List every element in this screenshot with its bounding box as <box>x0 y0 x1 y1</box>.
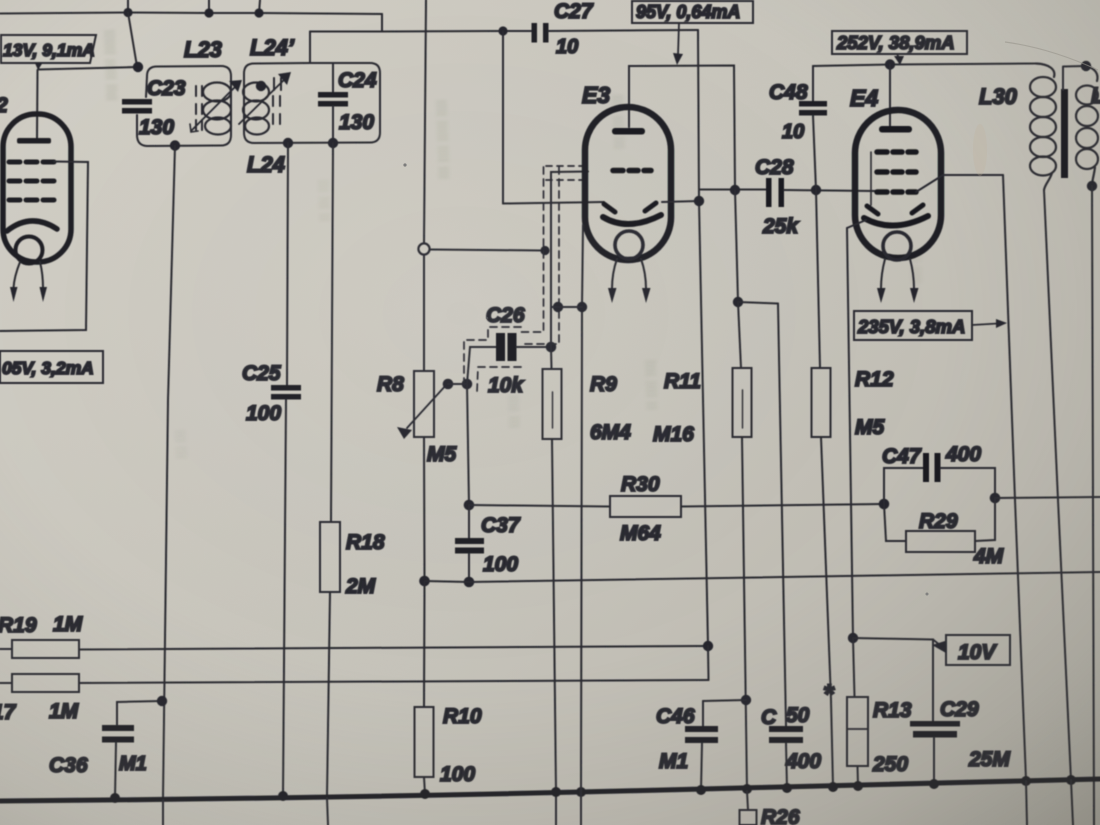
E4 inner grid rail <box>870 152 872 205</box>
capacitor C46 <box>685 726 718 743</box>
wire: second rail to C27 <box>310 30 531 33</box>
wire: long mid rail to right edge <box>469 572 1100 582</box>
wire: C26 right lead to node <box>517 346 552 348</box>
wire: R11 node to body <box>738 302 741 368</box>
E3 leg arrow right <box>641 259 646 289</box>
wire: R11 to bus <box>742 437 747 791</box>
wire: jog to C50 column <box>738 302 778 304</box>
wire: E4 anode feed <box>889 65 891 127</box>
resistor R18 <box>320 522 340 592</box>
junction dot return <box>703 641 713 651</box>
L24' core dashes <box>273 96 280 124</box>
wire: R29 branch right <box>975 498 995 541</box>
junction dot C47/R29 right <box>990 493 1001 504</box>
E2 cathode arc <box>7 221 57 231</box>
wire: right column down to bus <box>1003 175 1026 780</box>
E3 cathode tick left <box>604 204 615 212</box>
wire: stub up at x209 <box>208 0 210 13</box>
junction dot C46 branch <box>741 695 751 705</box>
resistor R13 with tap line <box>847 697 868 766</box>
wire: stub up at x128 <box>127 0 129 13</box>
junction dot anode node <box>694 196 704 206</box>
wire: L30 bottom to bus <box>1044 190 1071 780</box>
E4 grid dash rows <box>877 152 916 192</box>
wire: below-bus stub x327 <box>327 798 328 825</box>
wire: long drop x698 from rail to AVC node (E3 anode column) <box>698 30 708 646</box>
transformer core bar <box>1061 89 1068 178</box>
label box 13V <box>1 35 96 63</box>
tube E2 (cut at left edge) <box>3 114 71 262</box>
wire: R10 to bus <box>424 777 425 794</box>
E2 leg arrow left <box>14 262 21 288</box>
wire: rail from C27 to anode drop <box>549 30 699 31</box>
junction dot C26/R9 node <box>546 342 557 353</box>
E2 anode bar <box>17 138 51 144</box>
wire: C47 to right vertex <box>941 468 996 498</box>
bus junction dots <box>110 775 1076 803</box>
wire: below terminal down to R8 <box>423 255 425 371</box>
wire: R12 to bus <box>821 437 833 786</box>
wire: R8 bottom to lower node <box>423 437 426 581</box>
resistor R19 <box>12 640 79 658</box>
resistor R9 <box>543 369 562 439</box>
wire: 95V rail over E3 <box>629 66 735 191</box>
arrow from 95V box <box>678 23 679 55</box>
wire: R13 node to body <box>853 638 855 697</box>
capacitor C26 <box>496 333 517 361</box>
junction dot R11 node <box>733 297 743 307</box>
wire: upper return line y646 <box>79 646 708 650</box>
capacitor C37 <box>455 538 484 554</box>
arrow from 13V box to wire <box>39 63 41 68</box>
E3 cathode tick right <box>645 203 656 211</box>
wire: R11 column <box>735 190 738 302</box>
E2 heater circle <box>16 237 43 264</box>
wire: rail to right edge <box>995 497 1100 498</box>
E4 anode bar <box>879 126 912 133</box>
E4 leg arrow right <box>910 259 914 289</box>
inductor L23 (3 loops) <box>203 83 231 135</box>
junction dot secondary top <box>1081 61 1091 71</box>
label box 05V <box>0 351 103 383</box>
wire: node jog to C29 and 10V <box>853 638 933 722</box>
bleed-through ghost print <box>100 30 924 460</box>
L24' tuning arrow <box>239 77 287 124</box>
wire: C37 bottom lead <box>468 554 470 583</box>
252V measurement box <box>832 31 967 54</box>
wire: node down to R9 <box>550 347 553 369</box>
wire: R17 left stub <box>0 682 12 684</box>
junction dot C28 right <box>811 185 821 195</box>
shield dashed line right <box>521 167 559 344</box>
paper crease top-right <box>1005 42 1098 70</box>
junction dot <box>204 8 213 17</box>
shield dashes toward tube <box>546 166 584 180</box>
resistor R30 <box>610 496 681 517</box>
wire: secondary top link <box>1063 66 1086 90</box>
wire: C37 top lead <box>468 505 470 538</box>
wire: secondary bottom down right edge <box>1092 186 1094 825</box>
wire: E3 anode to node <box>662 201 699 202</box>
junction dot L23 box top <box>133 62 143 72</box>
inductor secondary (4 loops) <box>1086 66 1098 81</box>
junction dot C37 bottom <box>464 577 475 588</box>
E2 grid dash row 1 <box>9 160 54 165</box>
E4 heater circle <box>883 232 911 260</box>
junction dot C47/R29 left <box>879 499 890 510</box>
junction dot on shielded wire <box>540 246 549 255</box>
wire: long vertical from top edge to grid terminal <box>424 0 426 243</box>
wire: jumper to shielded wire <box>551 306 558 308</box>
wire: R19 left stub <box>0 648 12 650</box>
E2 leg arrow right <box>40 262 43 288</box>
10V box <box>946 635 1010 665</box>
95V measurement box <box>632 1 753 23</box>
E3 cathode arc <box>603 215 661 224</box>
wire: rail corner down to second rail <box>381 14 383 32</box>
resistor R12 <box>812 368 831 437</box>
wire: R18 to bus <box>327 592 330 796</box>
resistor R26 (cut at bottom) <box>740 810 757 825</box>
junction dot box1 bottom <box>170 140 180 150</box>
tube E3 envelope <box>585 107 671 260</box>
capacitor C47 <box>923 453 941 482</box>
wire: lean up from rail to box dot <box>128 13 137 67</box>
wire: into E3 left at y204 <box>503 202 604 204</box>
L23 core dashes <box>196 86 202 130</box>
box around C23/L23 (gap in left edge for C23) <box>137 66 231 146</box>
wire: C46 top lead <box>702 701 704 726</box>
wire: C48 drop <box>812 66 814 101</box>
wire: mid rail right of R30 <box>681 504 884 507</box>
wire: from corner to L23 box top <box>38 67 138 70</box>
wire: R12 column from C28 right <box>816 190 820 368</box>
wire: anode node to C28 <box>699 189 766 191</box>
junction dot C26 left branch <box>462 379 473 390</box>
open terminal circle <box>418 243 429 254</box>
wire: top rail <box>0 13 382 15</box>
wire: R13 to bus <box>857 766 860 786</box>
wire: drop from box2 to C25 <box>287 143 288 385</box>
E4 leg arrow left <box>881 259 885 289</box>
inductor L30 (5 loops) <box>1036 64 1054 78</box>
wire: C46 bottom to bus <box>701 743 702 791</box>
shield dashed line left <box>521 167 544 332</box>
capacitor C50 <box>769 726 803 743</box>
wire: below-bus stub R26 <box>747 791 748 810</box>
wire: E3 cathode drop to bus <box>581 225 583 825</box>
junction dot cathode jumper left <box>553 302 563 312</box>
E2 grid dash row 2 <box>9 179 54 184</box>
capacitor C48 <box>799 101 827 116</box>
wire: E4 screen takeoff to right column <box>916 175 1003 192</box>
wire: lower return line y683 <box>79 680 709 683</box>
resistor R10 <box>415 707 434 777</box>
wire: C26 left lead <box>467 347 496 384</box>
wire: L23 bottom long drop to bus <box>163 146 175 799</box>
junction dot R13 top node <box>848 633 858 643</box>
capacitor C27 <box>532 23 549 43</box>
tube E4 envelope <box>855 110 941 258</box>
junction dot box2 bottom left <box>283 138 293 148</box>
wire: below-bus stub x163 <box>162 800 164 825</box>
wire: link R8 node to C37 node <box>425 581 470 582</box>
wire: C29 bottom to bus <box>933 738 935 786</box>
wire: shielded grid wire up into E3 <box>551 172 588 348</box>
paper speck <box>486 317 489 320</box>
wire: feed down into L24' box <box>309 32 311 64</box>
junction dot lower node <box>419 576 430 587</box>
wire: C50 bottom to bus <box>786 743 787 789</box>
junction dot box2 bottom right <box>328 138 338 148</box>
capacitor C29 <box>910 721 960 738</box>
wire: C26 branch down to C37 <box>467 384 469 505</box>
L24' top tap dot and tick marks <box>256 81 266 91</box>
wire: E2 top cap <box>36 70 39 139</box>
resistor R17 <box>12 674 79 692</box>
bus wire (thick) <box>0 779 1100 801</box>
wire: R29 branch left <box>884 504 906 541</box>
box around L24'/C24 <box>244 63 380 143</box>
E3 heater circle <box>615 231 643 259</box>
E2 grid dash row 3 <box>9 198 54 203</box>
arrow from 252V box <box>897 54 899 58</box>
wire: jog between return lines <box>707 646 710 680</box>
junction dot <box>123 8 132 17</box>
inductor L24' (3 loops) <box>243 83 269 135</box>
E3 grid dashes <box>613 168 651 174</box>
wire: C47 branch top <box>884 468 923 504</box>
resistor R11 <box>733 368 752 437</box>
235V measurement box <box>854 311 972 340</box>
wire: cathode jumper <box>558 306 582 308</box>
wire: stub up at x259 <box>259 0 260 13</box>
wire: below-bus right columns <box>1026 781 1027 825</box>
wire: grid line from terminal to shielded wire <box>430 250 545 251</box>
capacitor C28 <box>766 178 784 207</box>
wire: 252V rail <box>813 64 1036 67</box>
wire: C50 column down <box>778 304 786 727</box>
wire: C48 to grid node <box>813 116 816 191</box>
wire: from dot down to E3 cathode-grid line <box>502 31 504 204</box>
E3 anode bar <box>612 128 645 135</box>
wire: drop from box2 right to R18 <box>331 143 333 522</box>
shield dashed wrap around C26 upper <box>464 327 521 390</box>
junction dot C36 jog <box>157 696 167 706</box>
junction dot at x503 <box>498 26 507 35</box>
wire: mid rail left of R30 <box>469 505 610 507</box>
E4 cathode tick right <box>912 205 923 213</box>
wire: E2 grid exit right <box>0 162 88 332</box>
L23 tuning arrow <box>191 84 238 131</box>
arrow into 10V line <box>933 640 946 651</box>
capacitor C24 <box>332 63 334 92</box>
shield dashed wrap around C26 lower <box>477 367 521 392</box>
resistor R29 <box>906 531 975 552</box>
wire: C36 bottom to bus <box>115 743 116 799</box>
R8 wiper arrow <box>407 384 447 428</box>
junction dot C37 top <box>464 500 475 511</box>
junction dot secondary bottom <box>1087 181 1097 191</box>
junction dot C28 left <box>730 185 740 195</box>
junction dot wiper <box>443 379 454 390</box>
wire: C28 right to E4 grid <box>784 190 875 191</box>
stain near L30 top <box>973 124 987 176</box>
E3 leg arrow left <box>612 259 617 289</box>
wire: C25 to bus <box>283 400 286 798</box>
wire: R9 bottom to bus <box>552 439 556 825</box>
wire: E4 cathode exit <box>847 220 866 638</box>
paper speck <box>926 593 929 596</box>
E4 cathode tick left <box>867 206 878 214</box>
wire: C46 jog from R11 lead <box>703 700 746 701</box>
wire: link wiper to C26 branch <box>448 383 467 385</box>
junction dot 252V <box>885 59 895 69</box>
E4 cathode arc <box>864 216 928 226</box>
wire: R8 node down to R10 <box>423 581 426 707</box>
arrow 235V to screen column <box>972 324 998 326</box>
junction dot <box>254 8 263 17</box>
paper speck <box>403 163 406 166</box>
potentiometer R8 body <box>414 371 434 437</box>
capacitor C25 <box>271 385 301 400</box>
capacitor C23 <box>122 99 152 114</box>
junction dot cathode jumper right <box>577 302 587 312</box>
wire: C36 top jog to L23 drop <box>117 701 162 725</box>
capacitor C36 <box>102 725 134 743</box>
